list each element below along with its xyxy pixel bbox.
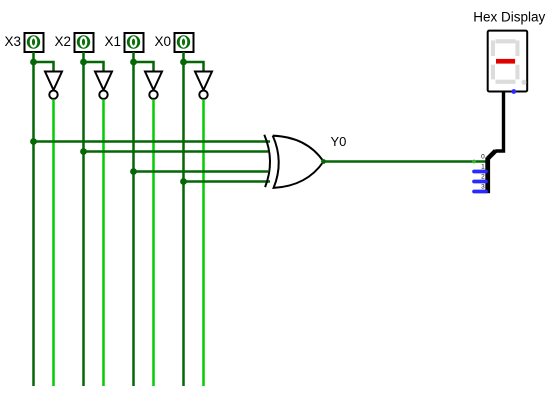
input pin X3 bbox=[25, 33, 44, 52]
svg-text:0: 0 bbox=[481, 153, 485, 160]
node xor output bbox=[321, 159, 326, 164]
wire X3 branch to inverter bbox=[34, 62, 54, 74]
wire X0 inverted output bbox=[202, 99, 205, 386]
wire X2 vertical bbox=[82, 52, 85, 386]
svg-text:3: 3 bbox=[481, 183, 485, 190]
inverter for X2 bbox=[95, 72, 112, 99]
node junction X1 to XOR bbox=[130, 168, 137, 175]
hex display bbox=[488, 31, 528, 92]
wire X1 inverted output bbox=[152, 99, 155, 386]
input pin X0 bbox=[175, 33, 194, 52]
wire XOR input 3 from X1 bbox=[134, 170, 269, 173]
inverter for X3 bbox=[45, 72, 62, 99]
wire X0 branch to inverter bbox=[184, 62, 204, 74]
wire X0 vertical bbox=[182, 52, 185, 386]
svg-text:Hex Display: Hex Display bbox=[473, 10, 545, 25]
svg-text:Y0: Y0 bbox=[331, 134, 347, 149]
node wire end at splitter leg 0 bbox=[472, 160, 476, 164]
node junction X3 to XOR bbox=[30, 138, 37, 145]
splitter leg 1 (floating) bbox=[474, 170, 486, 174]
node X3 branch junction bbox=[30, 59, 37, 66]
wire X2 inverted output bbox=[102, 99, 105, 386]
inverter for X1 bbox=[145, 72, 162, 99]
svg-text:X1: X1 bbox=[105, 34, 122, 49]
wire X1 vertical bbox=[132, 52, 135, 386]
wire X3 vertical bbox=[32, 52, 35, 386]
svg-text:X0: X0 bbox=[155, 34, 172, 49]
wire X2 branch to inverter bbox=[84, 62, 104, 74]
inverter for X0 bbox=[195, 72, 212, 99]
wire X1 branch to inverter bbox=[134, 62, 154, 74]
input pin X2 bbox=[75, 33, 94, 52]
wire XOR input 1 from X3 bbox=[34, 140, 271, 143]
pin hex display decimal point (unconnected) bbox=[511, 89, 516, 94]
splitter leg 2 (floating) bbox=[474, 180, 486, 184]
svg-text:2: 2 bbox=[481, 173, 485, 180]
wire X3 inverted output bbox=[52, 99, 55, 386]
splitter bbox=[481, 151, 495, 193]
svg-text:X2: X2 bbox=[55, 34, 72, 49]
node X0 branch junction bbox=[180, 59, 187, 66]
wire XOR input 2 from X2 bbox=[84, 150, 269, 153]
svg-text:X3: X3 bbox=[5, 34, 22, 49]
input pin X1 bbox=[125, 33, 144, 52]
wire XOR input 4 from X0 bbox=[184, 180, 271, 183]
node X2 branch junction bbox=[80, 59, 87, 66]
node X1 branch junction bbox=[130, 59, 137, 66]
wire Y0 output to splitter bbox=[324, 160, 489, 163]
wire bus hex display to splitter bbox=[495, 92, 503, 152]
svg-text:1: 1 bbox=[481, 163, 485, 170]
node junction X2 to XOR bbox=[80, 148, 87, 155]
xor gate bbox=[264, 135, 323, 188]
node junction X0 to XOR bbox=[180, 178, 187, 185]
splitter leg 3 (floating) bbox=[474, 190, 486, 194]
